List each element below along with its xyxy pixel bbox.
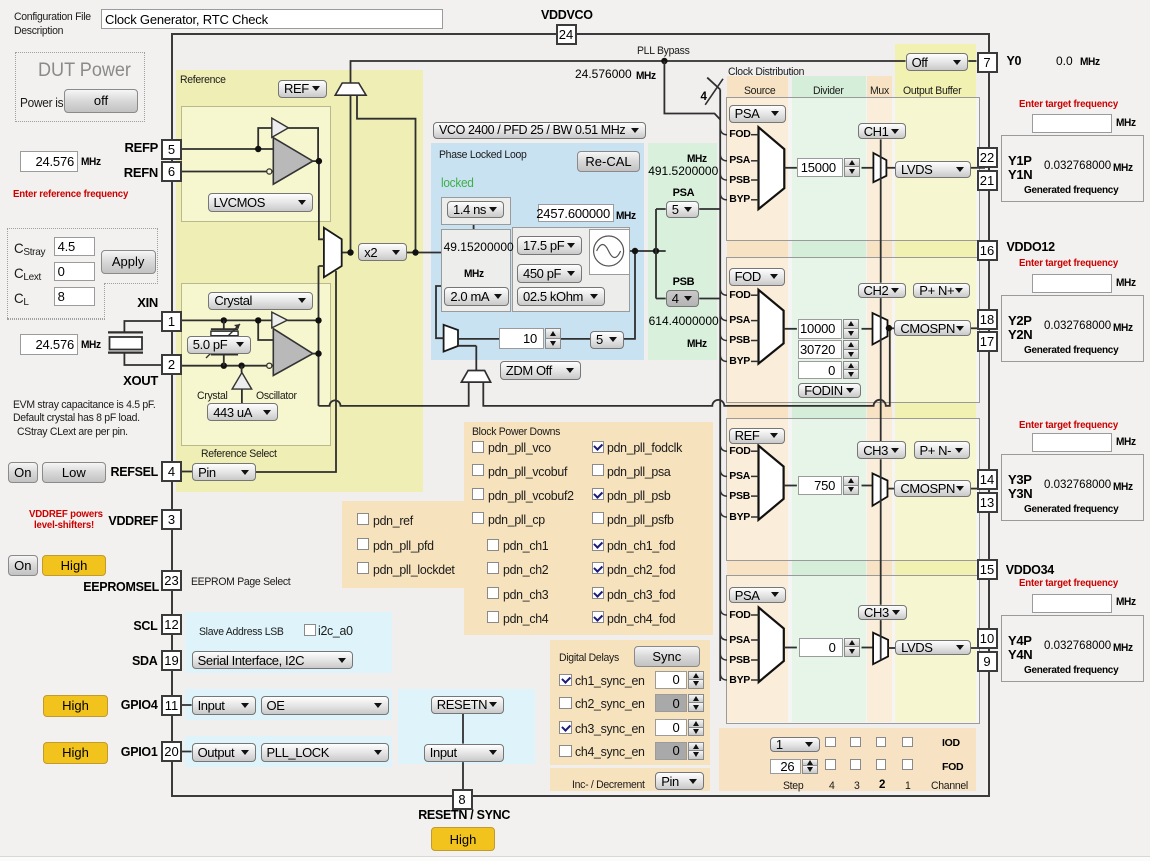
label REFN [124,166,158,180]
spinner PLL N [499,328,544,349]
dropdown PLL M [590,331,624,350]
wire to small buffer [258,128,272,149]
dropdown serial interface [192,651,354,670]
node osc in tap [255,317,261,323]
checkbox IOD ch2 [876,737,887,748]
GPIO1 box [185,736,391,768]
node PS in [653,248,659,254]
button Apply [101,250,156,274]
label PSB [673,276,695,288]
wire REFSEL pin stub [182,471,192,473]
label Crystal [197,390,228,403]
checkbox pdn_pll_pfd [357,538,369,550]
checkbox pdn_pll_psb [592,488,604,500]
node REFP tap [255,146,261,152]
mux channel 4 output [873,633,888,665]
config description input [101,9,443,29]
wire bus tap [720,154,727,161]
label enter reference frequency [13,188,128,201]
wire REFSEL select [256,271,336,472]
checkbox pdn_ch3 [487,587,499,599]
checkbox pdn_ch3_fod [592,587,604,599]
crystal (XTAL symbol) [108,332,143,352]
wire bus tap [720,174,727,181]
inverter bubble osc [267,363,272,368]
label enter target freq Y2 [1019,257,1118,270]
wire x2 bypass [357,95,416,252]
pin 6 [161,161,182,182]
dropdown ch3 source [729,428,786,444]
checkbox FOD ch2 [876,759,887,770]
pin 5 [161,139,182,160]
wire smux1 to buffer [886,167,895,169]
dropdown C2 [517,264,582,283]
PLL panel [431,143,645,360]
dropdown ch2 source [729,268,786,286]
label ch3 BYP [729,512,750,524]
label Phase Locked Loop [439,149,527,162]
label Digital Delays [559,652,619,665]
wire cascade CH4 [880,620,882,660]
label Mux [870,85,889,98]
wire XOUT to osc [182,365,267,367]
loop filter box [512,227,630,312]
dropdown ch2 buffer [894,320,971,336]
Mux band [867,76,892,722]
wire smux3 to buffer [888,488,896,490]
wire label dash [751,659,759,661]
wire cap top stub [223,320,225,329]
wire buffer2 to pins [971,327,985,329]
label ch1 PSA [729,155,750,167]
dropdown ch4 buffer [895,640,971,655]
dropdown ch1 source [729,105,787,122]
pin 15 [977,559,998,580]
dropdown PSA div [666,201,700,218]
pin 10 [977,628,998,649]
label CStray [14,240,45,257]
spinner ch1 divider [797,158,843,178]
input crystal frequency [20,334,78,355]
label GPIO1 [121,746,158,760]
checkbox ch2_sync_en [559,697,572,710]
wire div4 to mux [862,647,874,649]
wire x2 in [350,95,352,252]
pin 12 [161,614,182,635]
wire bus tap [720,289,727,296]
VCO symbol [589,229,628,273]
pin 18 [977,309,998,330]
mux channel 3 source [759,446,784,520]
wire buffer4 to pins [971,647,985,649]
button RESETN High [431,827,495,851]
inverter bubble [267,169,272,174]
label ch3 FOD [729,446,750,458]
button REFSEL Low [42,462,106,483]
pin 21 [977,170,998,191]
wire bus tap [720,445,727,452]
checkbox pdn_ch4_fod [592,611,604,623]
node VCO out [632,248,638,254]
pin 16 [977,240,998,261]
wire ZDM fb left [319,382,469,406]
label Output Buffer [903,85,961,98]
dropdown Inc/Dec Pin [655,772,704,790]
dropdown R2 [517,287,605,306]
checkbox pdn_pll_vco [472,441,484,453]
pin 20 [161,741,182,762]
wire bias to dropdown [241,389,243,403]
wire REF to PLL-bypass/Off [351,61,906,83]
button REFSEL On [8,462,38,483]
wire label dash [751,360,759,362]
wire XIN to osc [182,319,272,321]
wire GPIO stubs [182,705,192,752]
button GPIO1 High [43,742,109,764]
spinner ch2 total [798,340,842,360]
wire REFP [182,148,273,150]
checkbox ch4_sync_en [559,745,572,758]
label SCL [133,620,157,634]
capacitor variable (5.0 pF) [211,328,238,330]
spinner ch3 divider [798,476,842,496]
wire bias stub [241,366,243,373]
dropdown FODIN [798,383,861,399]
checkbox pdn_pll_vcobuf [472,464,484,476]
label Divider [813,85,844,98]
wire buffer1 to pins [971,167,985,169]
pin 22 [977,147,998,168]
label DUT Power [38,60,131,83]
VCO box bg [589,229,630,275]
wire label dash [751,679,759,681]
dropdown ch4 source [729,587,786,602]
wire label dash [751,134,759,136]
spinner FOD step [770,759,802,774]
buffer main (OSC) [273,329,313,376]
wire XOUT left [124,354,161,366]
wire div5 fb [624,251,635,339]
button power off [64,89,138,113]
button Sync [634,646,701,667]
label bus width 4 [701,91,707,104]
pin 17 [977,331,998,352]
wire cap bottom stub [223,355,225,366]
wire osc out vertical [319,266,324,406]
wire small buffer out [288,128,318,160]
dropdown REF [278,80,327,98]
checkbox IOD ch1 [902,737,913,748]
label XIN [137,296,158,310]
mux channel 2 output [873,313,888,344]
wire mux2 to ZDM buf [475,346,477,371]
dropdown Crystal [208,292,313,310]
buffer small (REF) [272,118,289,137]
checkbox pdn_pll_psa [592,464,604,476]
dropdown x2 [358,243,406,261]
wire div1 to mux [862,167,874,169]
tdc outer box [441,197,511,225]
label EEPROM Page Select [191,576,290,589]
wire bus tap [720,314,727,321]
wire mux2 out [784,328,797,330]
buffer REF out (trapezoid) [335,83,366,95]
main diagram border [171,33,990,797]
wire bus tap [720,128,727,135]
label ch2 FOD [729,290,750,302]
dropdown charge pump [444,287,509,306]
wire label dash [751,450,759,452]
buffer ZDM (trapezoid) [461,371,490,383]
dropdown PSB div [666,290,700,308]
label SDA [132,655,158,669]
wire REFN [182,171,267,173]
Block Power Downs box [464,422,714,635]
GPIO4 box [185,689,391,721]
dropdown ch3 polarity [914,441,970,459]
pin 1 [161,311,182,332]
label ch4 BYP [729,675,750,687]
bus width slash [705,79,723,105]
dropdown REFSEL Pin [192,463,256,481]
input CL [54,287,95,306]
dropdown IOD step [770,737,820,752]
checkbox pdn_ref [357,513,369,525]
wire PSA out [699,208,720,210]
mux channel 1 source [759,127,785,209]
checkbox FOD ch4 [825,759,836,770]
wire smux2 to buffer [888,327,896,329]
wire mux to div10 [458,338,499,340]
wire label dash [751,320,759,322]
wire tdc stub [473,223,475,229]
spinner ch2 divider [798,319,842,339]
spinner ch4 delay [655,742,687,760]
wire label dash [751,179,759,181]
label EEPROMSEL [83,581,159,595]
pin 23 [161,570,182,591]
wire buffer3 to pins [971,488,985,490]
wire label dash [751,199,759,201]
checkbox FOD ch3 [850,759,861,770]
wire bypass drop [664,61,720,120]
checkbox FOD ch1 [902,759,913,770]
Digital Delays box [550,640,710,766]
dropdown 5.0 pF [187,336,251,354]
label config file [14,11,91,24]
wire bus tap [720,470,727,477]
wire Input dd to pin8 [462,762,464,789]
dropdown GPIO1 dir [192,743,256,763]
checkbox ch3_sync_en [559,721,572,734]
wire smux4 to buffer [888,647,895,649]
Divider band [792,76,866,722]
wire cascade CH2-CH3 [880,298,882,441]
wire mux4 out [784,647,797,649]
wire mux3 out [784,485,797,487]
label MHz [464,268,484,280]
wire Off to Y0 [968,60,976,62]
button EEPROM On [8,555,38,576]
wire bus tap [720,511,727,518]
node osc small out [315,317,321,323]
mux channel 3 output [873,473,888,505]
checkbox pdn_pll_vcobuf2 [472,488,484,500]
group Y2 [1001,295,1144,362]
dropdown 1.4 ns [447,201,504,218]
group Y1 [1001,135,1144,202]
checkbox pdn_ch1_fod [592,539,604,551]
DUT Power box [15,52,145,122]
label VDDREF [108,515,158,529]
wire bus tap [720,334,727,341]
label Block Power Downs [472,426,560,439]
spinner ch4 divider [799,638,843,658]
dropdown GPIO1 function [261,743,389,763]
dropdown VCO mode [433,122,646,139]
pdn_ref box [342,501,464,588]
label enter target freq Y3 [1019,419,1118,432]
wire bus tap [720,193,727,200]
wire div3 to mux [862,485,873,487]
Source band [727,76,788,722]
label FOD [942,762,963,774]
wire fb to PFD [436,286,444,338]
label enter target freq Y4 [1019,577,1118,590]
label Reference Select [201,448,277,461]
dropdown ch3 mux [857,441,906,459]
dropdown ch2 mux [858,283,907,298]
buffer small (OSC) [272,312,288,328]
label PSA freq [648,165,718,178]
Crystal inner box [181,283,331,446]
input target freq Y2 [1032,274,1112,293]
node REF buf out [316,158,322,164]
input target freq Y3 [1032,433,1112,452]
label IOD [942,738,960,750]
wire mux1 out [784,167,797,169]
wire label dash [751,639,759,641]
input reference frequency [20,151,78,172]
label REFSEL [110,466,158,480]
CStray group box [7,228,158,284]
wire bus tap [720,490,727,497]
wire x2 out to PLL [342,252,442,254]
label Reference [180,74,226,87]
label XOUT [123,374,158,388]
input target freq Y4 [1032,594,1112,613]
spinner ch2 delay [655,694,687,712]
REF input inner box [181,106,331,222]
dropdown ch1 buffer [895,161,971,178]
spinner ch3 delay [655,719,687,737]
dropdown 443 uA [207,403,278,421]
pin 4 [161,461,182,482]
IOD/FOD step panel [719,728,976,791]
label REFP [125,141,158,155]
label Source [744,85,775,98]
label ch4 FOD [729,610,750,622]
wire RESETN dd to Input dd [462,713,464,743]
node bias tap [238,363,244,369]
dropdown GPIO4 function [261,696,389,715]
group Y4 [1001,615,1144,682]
wire osc out [313,353,319,355]
label ch2 PSA [729,315,750,327]
PFD box [441,229,511,312]
dropdown ZDM [500,361,581,379]
label locked [441,176,474,191]
label Slave Address LSB [199,626,284,639]
pin 19 [161,650,182,671]
label ch1 PSB [729,175,750,187]
bias buffer (443 uA) [232,373,252,390]
wire bus tap [720,654,727,661]
channel 1 box [726,97,980,241]
label Channel [931,780,968,793]
wire bus tap [720,609,727,616]
wire bus tap [720,634,727,641]
spinner ch2 phase [798,361,842,380]
wire REF buf out to mux [313,161,324,239]
mux channel 2 source [759,290,784,364]
label ch2 BYP [729,356,750,368]
button GPIO4 High [43,695,109,717]
dropdown LVCMOS [208,193,313,212]
node cap bottom tap [221,363,227,369]
wire label dash [751,294,759,296]
dropdown ch4 mux [858,605,907,620]
checkbox IOD ch4 [825,737,836,748]
label CL [14,290,29,307]
wire cascade CH3-CH4 [880,459,882,605]
label Inc-/Decrement [572,779,645,792]
dropdown ch2 polarity [913,283,970,298]
Reference panel [176,70,423,493]
checkbox pdn_ch4 [487,611,499,623]
channel 2 box [726,257,980,403]
node x2 out [412,249,418,255]
checkbox pdn_pll_fodclk [592,441,604,453]
checkbox pdn_pll_lockdet [357,562,369,574]
input VCO frequency [538,204,614,222]
spinner ch1 delay [655,671,687,689]
dropdown ch3 buffer [894,480,971,496]
pin 11 [161,695,182,716]
label Y0 [1007,55,1022,69]
wire PS taps [656,209,666,299]
wire ZDM fb right [483,328,890,406]
bus diagonal [707,78,720,90]
dropdown RESETN [431,696,504,715]
checkbox IOD ch3 [850,737,861,748]
Inc/Decrement box [550,768,710,791]
label Oscillator [256,390,297,403]
label Clock Distribution [728,66,804,79]
mux PLL feedback [444,325,458,352]
label ref freq [575,68,632,81]
label ch3 PSA [729,471,750,483]
label ch1 BYP [729,194,750,206]
dropdown C1 [517,236,582,255]
wire div2 to mux [862,328,873,330]
label VDDREF warning [29,508,103,521]
input CStray [54,237,95,256]
Output Buffer band [895,44,976,722]
pin 13 [977,492,998,513]
mux reference select [324,228,342,278]
group Y3 [1001,454,1144,521]
